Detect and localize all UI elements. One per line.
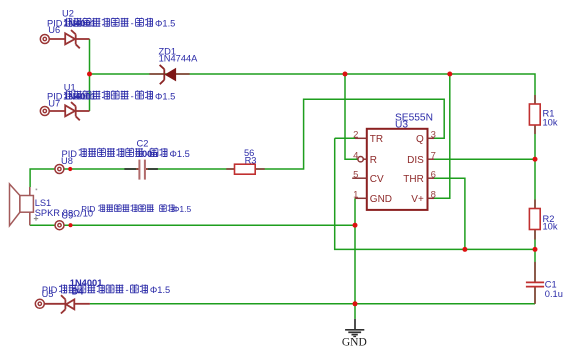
svg-text:Φ1.5: Φ1.5 — [173, 204, 192, 214]
svg-text:8: 8 — [431, 190, 436, 201]
svg-text:-: - — [126, 285, 129, 295]
svg-text:PID: PID — [47, 19, 63, 29]
svg-text:DIS: DIS — [407, 155, 424, 166]
svg-text:U2: U2 — [62, 8, 74, 18]
svg-text:1N4001: 1N4001 — [63, 91, 96, 101]
svg-text:7: 7 — [431, 151, 436, 162]
svg-text:-: - — [131, 91, 134, 101]
svg-text:C2: C2 — [137, 138, 149, 148]
svg-text:THR: THR — [403, 174, 424, 185]
svg-text:V+: V+ — [411, 194, 424, 205]
svg-text:10k: 10k — [543, 222, 558, 232]
svg-text:100n: 100n — [137, 149, 159, 159]
svg-text:10k: 10k — [543, 118, 558, 128]
svg-text:-: - — [131, 19, 134, 29]
svg-text:4: 4 — [353, 151, 358, 162]
svg-text:GND: GND — [370, 194, 392, 205]
svg-text:5: 5 — [353, 170, 358, 181]
svg-text:GND: GND — [342, 337, 367, 349]
svg-text:U3: U3 — [395, 119, 408, 130]
svg-text:PID: PID — [42, 285, 58, 295]
svg-text:PID: PID — [62, 149, 78, 159]
svg-text:1N4744A: 1N4744A — [159, 54, 199, 64]
svg-text:3: 3 — [431, 130, 436, 141]
svg-text:1N4001: 1N4001 — [63, 19, 96, 29]
svg-text:Φ1.5: Φ1.5 — [155, 91, 175, 101]
svg-text:0.1u: 0.1u — [545, 289, 563, 299]
svg-text:2: 2 — [353, 130, 358, 141]
svg-text:6: 6 — [431, 170, 436, 181]
svg-text:Φ1.5: Φ1.5 — [150, 285, 170, 295]
svg-text:CV: CV — [370, 174, 384, 185]
svg-text:R: R — [370, 155, 377, 166]
svg-text:1: 1 — [353, 190, 358, 201]
svg-text:LS1: LS1 — [35, 198, 52, 208]
svg-text:PID: PID — [81, 204, 95, 214]
svg-text:D4: D4 — [72, 287, 85, 297]
svg-text:Q: Q — [416, 134, 424, 145]
svg-text:R3: R3 — [245, 156, 257, 166]
svg-text:Φ1.5: Φ1.5 — [170, 149, 190, 159]
svg-text:Φ1.5: Φ1.5 — [155, 19, 175, 29]
svg-text:PID: PID — [47, 91, 63, 101]
svg-text:TR: TR — [370, 134, 383, 145]
